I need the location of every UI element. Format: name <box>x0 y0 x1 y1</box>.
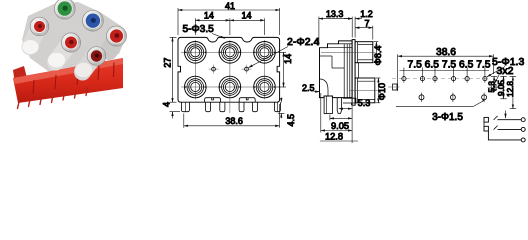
dim 14 14 top <box>195 18 264 35</box>
svg-text:13.3: 13.3 <box>326 9 344 19</box>
svg-text:3-Φ1.5: 3-Φ1.5 <box>432 112 463 123</box>
jack dark red (front right) <box>87 47 106 66</box>
front flange plate <box>352 40 355 106</box>
svg-text:7: 7 <box>364 18 369 28</box>
dim phi10 <box>376 78 381 103</box>
jack red (back right) <box>107 26 127 46</box>
upper barrel phi8.4 <box>355 42 373 63</box>
svg-text:9.05: 9.05 <box>331 121 349 131</box>
svg-text:14: 14 <box>241 11 251 21</box>
dim 41 top <box>178 8 280 35</box>
bottom tab pair between col1-2 <box>205 98 221 103</box>
dashed centerline through pad row <box>392 78 490 80</box>
body internal lines <box>320 44 353 98</box>
red housing main slab <box>13 58 123 103</box>
mounting holes 3-phi1.5 <box>419 93 487 102</box>
right vertical dims 5.3 / 9.05 / 12.8 <box>491 76 516 108</box>
svg-text:12.8: 12.8 <box>325 131 343 141</box>
dim 7 barrel length <box>355 26 373 40</box>
dim 5.3 <box>339 108 352 110</box>
svg-text:4.5: 4.5 <box>286 114 296 127</box>
jack J5 (bottom-center) <box>219 76 241 98</box>
housing slot shadows <box>33 63 114 95</box>
dim 4 left (pin length) <box>170 112 181 119</box>
dim 38.6 top <box>398 54 494 91</box>
small hole between rows left <box>209 68 219 70</box>
metal chassis blob behind jacks <box>22 2 123 74</box>
row centerlines <box>181 40 277 113</box>
pad row: 6 holes phi1.3 <box>402 75 487 83</box>
svg-text:14: 14 <box>204 11 214 21</box>
jack blue (back middle) <box>83 10 104 31</box>
jack J1 (top-left) <box>184 42 206 64</box>
jack J3 (top-right) <box>254 42 276 64</box>
dim 9.05 <box>330 106 352 143</box>
svg-text:5.3: 5.3 <box>487 81 496 93</box>
red housing left wall <box>13 66 28 84</box>
svg-text:Φ8.4: Φ8.4 <box>373 46 383 66</box>
signal pin <box>337 98 341 114</box>
arrow into contact 1 <box>505 111 507 119</box>
front row jack barrels (white cylinders) <box>22 30 93 77</box>
dim 1.2 flange <box>344 17 362 38</box>
dim 4.5 right (pin length) <box>278 98 285 119</box>
svg-text:41: 41 <box>225 1 235 11</box>
switch schematic: contact 3 (common) <box>484 122 525 142</box>
svg-text:9.05: 9.05 <box>497 80 506 96</box>
jack red (front left) <box>30 17 49 36</box>
svg-text:7.5 6.5 7.5 6.5 7.5: 7.5 6.5 7.5 6.5 7.5 <box>408 60 491 71</box>
dim 27 left <box>170 37 177 102</box>
housing body (side) <box>320 41 353 98</box>
switch schematic: contact 2 <box>484 126 525 132</box>
small hole between rows right <box>242 68 252 70</box>
svg-text:2-Φ2.4: 2-Φ2.4 <box>287 36 319 48</box>
slot 3x2 right <box>491 84 496 90</box>
jack red (front middle) <box>61 33 80 52</box>
jack green (back left) <box>54 0 75 19</box>
dim phi8.4 <box>374 42 379 63</box>
pins under front view <box>182 102 281 112</box>
switch schematic: contact 1 <box>484 116 525 122</box>
svg-text:Φ10: Φ10 <box>377 83 387 100</box>
svg-text:38.6: 38.6 <box>436 47 456 58</box>
svg-text:2.5: 2.5 <box>302 83 315 93</box>
svg-text:27: 27 <box>163 58 173 68</box>
svg-text:14: 14 <box>283 54 293 64</box>
jack J2 (top-center) <box>219 42 241 64</box>
pitch dims 7.5/6.5 row <box>400 68 490 75</box>
bottom tab pair between col2-3 <box>239 98 255 103</box>
pcb bracket <box>343 98 356 103</box>
dim 14 right (row pitch) <box>277 52 287 87</box>
svg-text:12.8: 12.8 <box>506 81 515 97</box>
svg-text:4: 4 <box>161 102 171 107</box>
slot 3x2 left <box>393 84 397 90</box>
ground pin (wide) <box>324 96 332 114</box>
back row jack barrels <box>57 10 116 51</box>
svg-text:5.3: 5.3 <box>358 98 371 108</box>
jack J4 (bottom-left) <box>184 76 206 98</box>
svg-text:38.6: 38.6 <box>225 116 243 126</box>
dim 12.8 <box>320 93 358 141</box>
barrel centerlines <box>321 51 376 53</box>
dim 13.3 top <box>319 17 352 46</box>
connector body outline <box>178 37 280 102</box>
solder pins <box>18 88 88 109</box>
jack J6 (bottom-right) <box>254 76 276 98</box>
svg-text:5-Φ3.5: 5-Φ3.5 <box>183 24 215 35</box>
lower barrel phi10 <box>355 78 375 103</box>
dim 38.6 bottom <box>184 104 280 128</box>
